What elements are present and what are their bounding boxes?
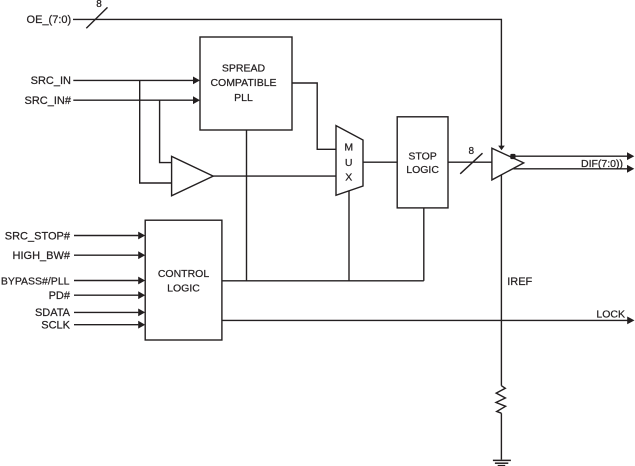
wire HIGH_BW# [74,254,138,256]
svg-text:8: 8 [469,146,475,157]
wire resistor to ground [500,413,502,459]
arrowhead SRC_IN# into PLL [193,96,200,104]
svg-text:LOGIC: LOGIC [406,164,439,176]
svg-text:M: M [344,142,353,154]
wire SDATA [74,311,138,313]
svg-text:LOGIC: LOGIC [167,283,200,295]
svg-text:CONTROL: CONTROL [158,268,209,280]
svg-text:SRC_STOP#: SRC_STOP# [5,230,71,242]
bus width slash on OE bus [86,7,107,28]
arrowhead LOCK [627,317,634,325]
arrowhead SRC_STOP# [138,232,145,240]
control logic block [145,220,222,340]
svg-text:IREF: IREF [507,276,532,288]
arrowhead SRC_IN into PLL [193,77,200,85]
svg-text:COMPATIBLE: COMPATIBLE [210,77,276,89]
wire BYPASS#/PLL [74,280,138,282]
input receiver buffer [172,156,214,195]
svg-text:SDATA: SDATA [35,307,71,319]
wire SCLK [74,324,138,326]
wire PLL to control net [246,130,248,281]
arrowhead PD# [138,291,145,299]
arrowhead SDATA [138,309,145,317]
wire stop logic bottom to control net [423,208,425,281]
svg-text:HIGH_BW#: HIGH_BW# [13,250,71,262]
wire DIF complement output [513,168,627,170]
mux MUX [336,126,363,196]
junction dot on output buffer [510,154,515,159]
svg-text:SPREAD: SPREAD [222,62,266,74]
wire IREF from output buffer to resistor [500,175,502,386]
arrowhead BYPASS#/PLL [138,277,145,285]
arrowhead DIF true [627,152,634,160]
svg-text:X: X [345,172,352,184]
bus width slash on output bus [460,153,482,174]
svg-text:OE_(7:0): OE_(7:0) [27,14,72,26]
arrowhead HIGH_BW# [138,251,145,259]
wire PD# [74,294,138,296]
wire SRC_IN branch to input receiver [140,80,172,183]
wire SRC_STOP# [74,235,138,237]
svg-text:PD#: PD# [49,290,71,302]
output buffer [492,148,524,180]
wire SRC_IN# branch to input receiver [160,100,172,162]
wire MUX select from control net [348,191,350,281]
svg-text:PLL: PLL [234,92,253,104]
ground [493,459,511,461]
wire receiver output to MUX input B [213,175,336,177]
resistor (IREF) [496,386,506,414]
arrowhead OE into output buffer [498,146,505,151]
wire OE bus from label to output buffer enable [73,19,501,146]
svg-text:SCLK: SCLK [41,320,70,332]
wire LOCK output [222,319,628,321]
stop logic block [397,117,448,208]
wire control logic to stop logic net [222,280,424,282]
wire DIF true output [513,155,627,157]
wire PLL output to MUX input A [292,83,336,149]
svg-text:LOCK: LOCK [596,309,625,321]
wire stop logic output bus to output buffer [448,161,492,163]
wire SRC_IN# to PLL [73,99,193,101]
svg-text:BYPASS#/PLL: BYPASS#/PLL [1,275,70,287]
svg-text:U: U [345,157,353,169]
svg-text:8: 8 [96,0,102,10]
svg-text:SRC_IN#: SRC_IN# [25,95,72,107]
svg-text:STOP: STOP [408,151,436,163]
svg-text:DIF(7:0)): DIF(7:0)) [581,158,623,170]
wire SRC_IN to PLL [73,79,193,81]
arrowhead SCLK [138,321,145,329]
arrowhead DIF complement [627,165,634,173]
spread compatible PLL block [200,37,292,130]
wire MUX output to stop logic [363,161,397,163]
svg-text:SRC_IN: SRC_IN [31,75,71,87]
